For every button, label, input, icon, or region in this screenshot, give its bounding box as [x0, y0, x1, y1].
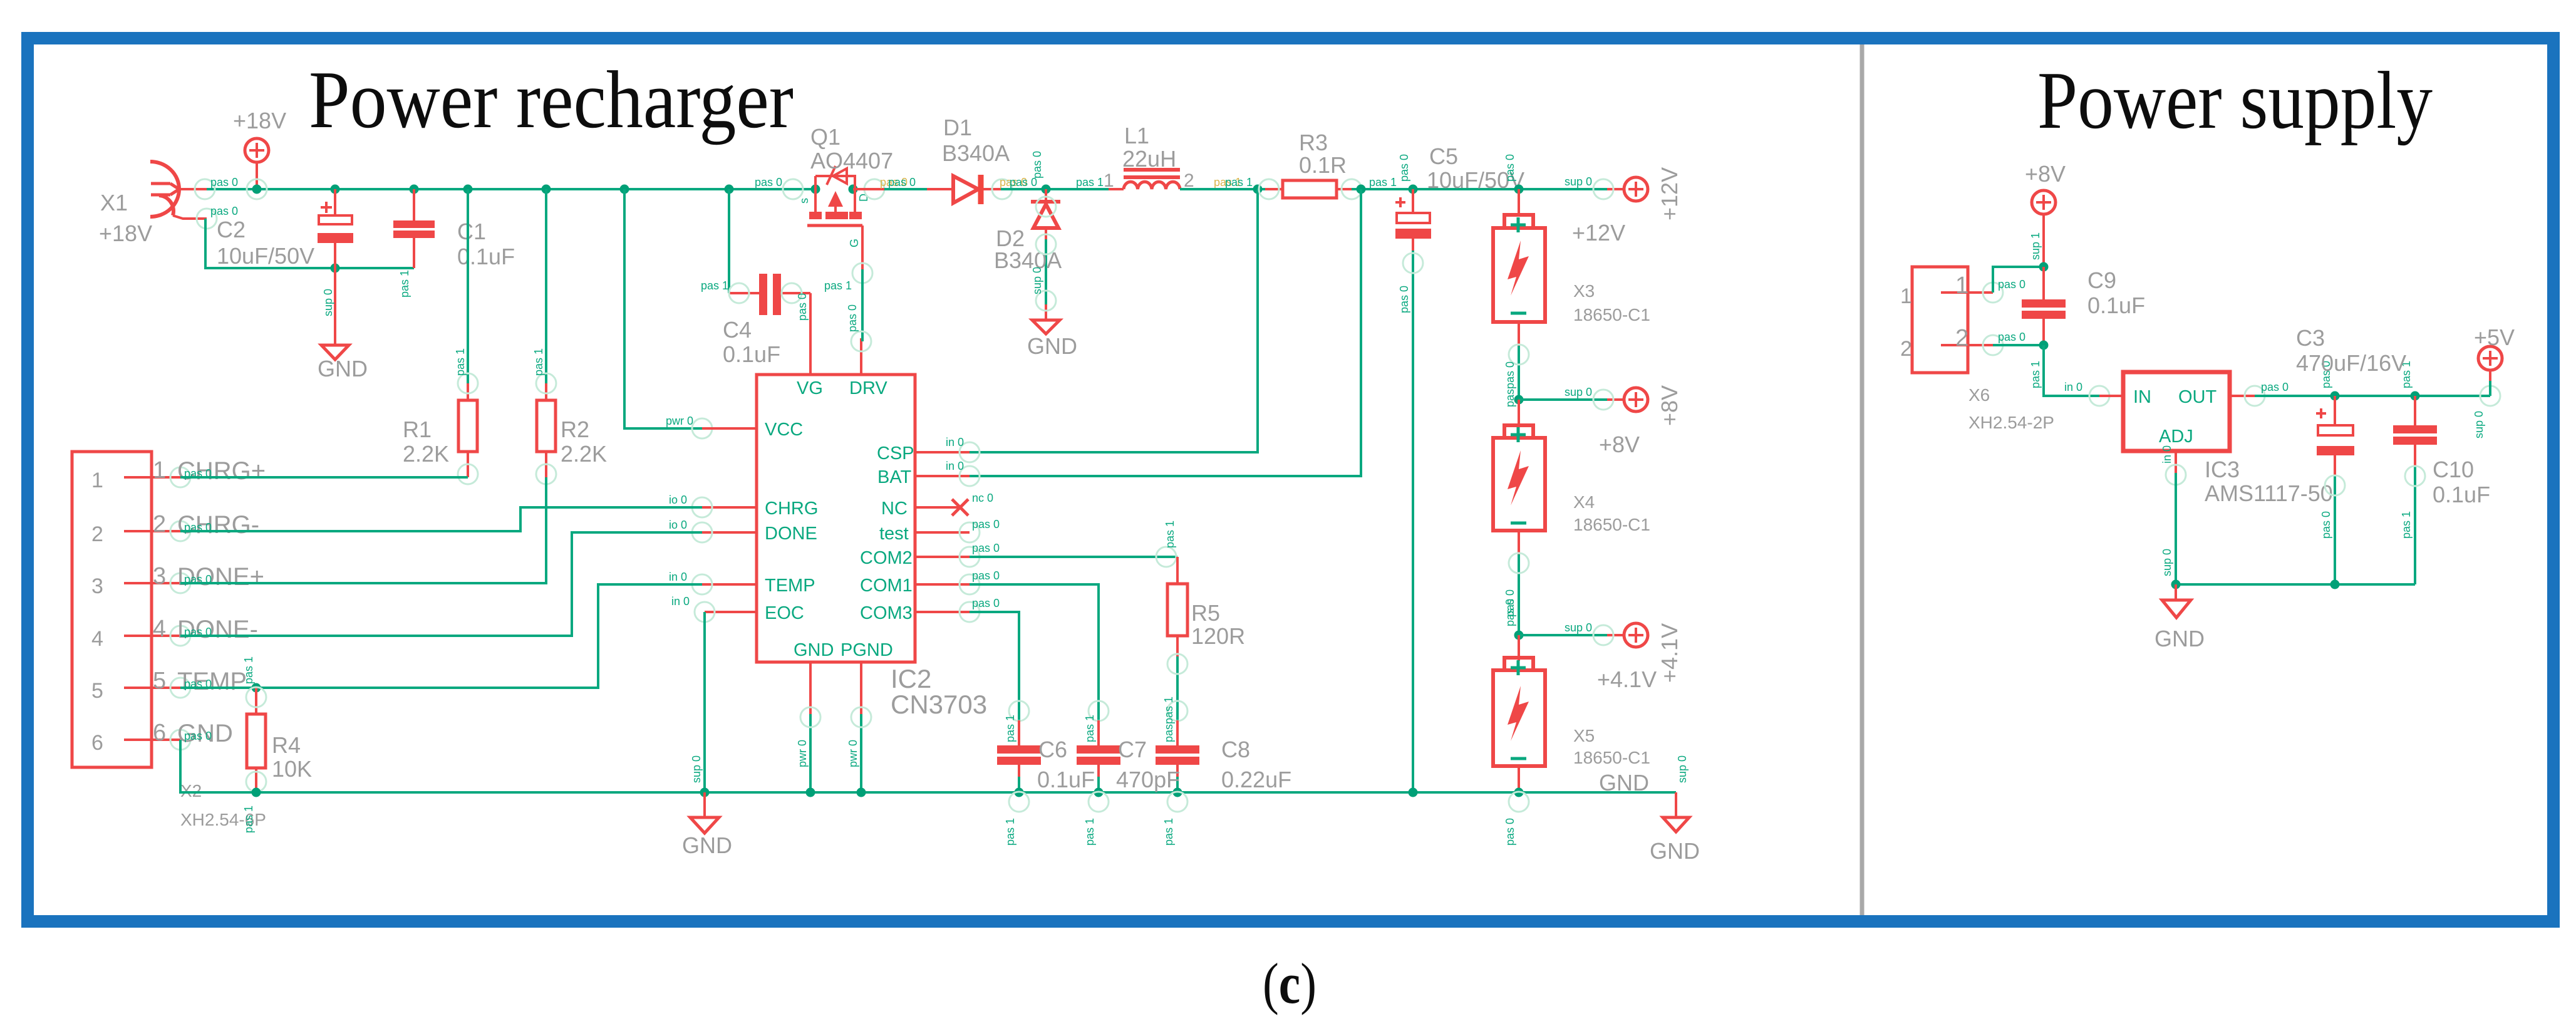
- svg-text:2: 2: [1900, 337, 1912, 361]
- pin ring +4.1V tap: [1593, 625, 1613, 645]
- wire C3 to gnd: [2334, 476, 2336, 584]
- pin 3 X2: [124, 573, 190, 593]
- svg-text:22uH: 22uH: [1122, 146, 1176, 172]
- pin stub TEMP: [702, 583, 757, 586]
- junction C2 bottom: [331, 264, 340, 273]
- pin ring C8 bottom: [1167, 792, 1187, 812]
- svg-text:AMS1117-50: AMS1117-50: [2205, 480, 2333, 506]
- svg-text:R5: R5: [1191, 600, 1220, 626]
- pin stub DRV: [860, 338, 862, 375]
- ground right of batteries: [1663, 792, 1689, 832]
- pin ring VCC: [692, 418, 712, 438]
- svg-text:2.2K: 2.2K: [561, 441, 607, 467]
- svg-text:pas 0: pas 0: [1998, 278, 2025, 291]
- svg-text:+12V: +12V: [1657, 167, 1682, 220]
- pin stub OUT: [2230, 395, 2255, 397]
- svg-text:X4: X4: [1573, 492, 1595, 512]
- svg-text:2.2K: 2.2K: [403, 441, 449, 467]
- junction BAT node: [1357, 185, 1366, 194]
- svg-text:GND: GND: [318, 356, 368, 381]
- pin ring EOC: [695, 602, 715, 622]
- wire OUT net: [2255, 395, 2490, 397]
- pin label overlap pas 0 at Q1 drain: [880, 176, 916, 189]
- svg-text:18650-C1: 18650-C1: [1573, 515, 1650, 534]
- pin ring CHRG: [692, 497, 712, 517]
- svg-text:paspas 1: paspas 1: [1162, 697, 1175, 742]
- svg-text:NC: NC: [881, 499, 908, 519]
- pin stub BAT: [915, 475, 970, 477]
- wire GND pin to rail: [809, 714, 812, 792]
- junction C3 top: [2330, 391, 2340, 401]
- svg-text:pas 1: pas 1: [1076, 176, 1104, 189]
- svg-text:TEMP: TEMP: [765, 576, 815, 596]
- svg-text:Q1: Q1: [810, 124, 841, 150]
- svg-text:pas 1: pas 1: [1004, 715, 1016, 742]
- svg-text:C1: C1: [457, 219, 486, 244]
- pin ring R1 bottom: [458, 464, 478, 484]
- wire +18V rail: [204, 188, 815, 190]
- svg-text:(c): (c): [1263, 951, 1316, 1015]
- pin ring C10 bottom: [2405, 466, 2425, 486]
- wire CHRG- net: [180, 507, 702, 531]
- svg-text:pas 0: pas 0: [846, 304, 859, 332]
- svg-text:PGND: PGND: [841, 640, 893, 660]
- pin stub IN: [2099, 395, 2123, 397]
- wire CSP net: [970, 189, 1258, 452]
- pin ring D2 bottom: [1036, 234, 1056, 254]
- pin 2 X6: [1941, 335, 2003, 355]
- pin 5 X2: [124, 678, 190, 698]
- junction +4.1V tap: [1514, 631, 1524, 640]
- svg-text:CHRG: CHRG: [765, 499, 818, 519]
- pin stub EOC: [705, 611, 757, 613]
- junction R4 top: [252, 683, 261, 693]
- svg-text:470uF/16V: 470uF/16V: [2296, 350, 2406, 376]
- wire X1 sleeve to gnd node: [205, 219, 414, 268]
- svg-text:+5V: +5V: [2474, 324, 2515, 350]
- svg-text:C10: C10: [2433, 457, 2474, 482]
- svg-text:VG: VG: [797, 378, 823, 398]
- junction +18V tap: [252, 185, 262, 194]
- svg-text:C8: C8: [1221, 737, 1250, 762]
- svg-text:pas 1: pas 1: [398, 270, 411, 298]
- svg-text:pas 1: pas 1: [454, 348, 467, 376]
- pin ring R2 bottom: [536, 464, 556, 484]
- svg-text:5: 5: [153, 668, 166, 694]
- capacitor C6 0.1uF: [997, 720, 1041, 780]
- junction C1 top: [410, 185, 419, 194]
- pin ring X3 bottom: [1509, 345, 1529, 365]
- pin ring X4 bottom: [1509, 553, 1529, 573]
- wire DONE+ net: [180, 477, 546, 583]
- svg-text:pas 0: pas 0: [1031, 151, 1043, 179]
- svg-text:R2: R2: [561, 417, 589, 442]
- junction C6 rail: [1015, 788, 1024, 797]
- pin ring test: [960, 522, 980, 542]
- wire PGND pin to rail: [860, 714, 862, 792]
- capacitor C2: [318, 189, 353, 268]
- svg-text:pas 0: pas 0: [972, 597, 1000, 609]
- wire D1 to L1: [1001, 188, 1124, 190]
- battery X5: [1493, 635, 1545, 792]
- svg-text:DONE: DONE: [765, 524, 817, 544]
- pin ring X1 sleeve: [197, 209, 217, 229]
- svg-text:io 0: io 0: [669, 519, 687, 531]
- svg-text:COM1: COM1: [860, 576, 913, 596]
- pin stub CHRG: [702, 506, 757, 509]
- pin label overlap pas 1 L1 right: [1214, 176, 1253, 189]
- svg-text:X5: X5: [1573, 726, 1595, 745]
- wire COM1 net: [970, 584, 1099, 720]
- svg-text:GND: GND: [682, 832, 732, 858]
- pin ring C3 bottom: [2325, 475, 2345, 495]
- pin ring C5 bottom: [1403, 253, 1423, 273]
- pin ring R4 bottom: [246, 772, 266, 792]
- junction R4 bottom: [252, 788, 261, 797]
- svg-text:120R: 120R: [1191, 623, 1245, 649]
- svg-text:10uF/50V: 10uF/50V: [217, 243, 314, 269]
- junction C7 rail: [1094, 788, 1104, 797]
- svg-text:pwr 0: pwr 0: [666, 415, 693, 427]
- pin ring DRV: [851, 331, 871, 351]
- svg-text:nc 0: nc 0: [972, 492, 993, 504]
- pin ring C7 top: [1089, 701, 1109, 721]
- svg-text:Power recharger: Power recharger: [309, 54, 794, 145]
- wire TEMP net: [180, 584, 702, 688]
- wire gnd rail bottom: [180, 740, 1676, 792]
- svg-text:sup 0: sup 0: [1676, 755, 1689, 783]
- wire C8 to rail: [1176, 777, 1179, 792]
- svg-text:pas 0: pas 0: [972, 518, 1000, 531]
- pin 1 X6: [1941, 282, 2003, 303]
- junction C9 bottom: [2039, 341, 2049, 350]
- junction C5 rail: [1409, 788, 1418, 797]
- wire Q1 drain to D1: [853, 188, 953, 190]
- wire COM3 net: [970, 612, 1019, 720]
- pin stub GND of IC2: [809, 662, 812, 714]
- IC U2 CN3703 body: [757, 375, 915, 662]
- pin ring D2 top: [1036, 197, 1056, 217]
- transistor Q1 AO4407: [807, 166, 862, 269]
- ground under D2: [1032, 304, 1060, 334]
- pin ring R5 top: [1156, 547, 1176, 567]
- wire X6 pin2 to C9 bottom: [1993, 344, 2044, 346]
- svg-text:18650-C1: 18650-C1: [1573, 748, 1650, 767]
- svg-text:+8V: +8V: [1599, 432, 1640, 457]
- svg-text:pas 0: pas 0: [1504, 818, 1516, 846]
- diode D2 B340A: [1031, 189, 1060, 239]
- wire EOC to gnd: [703, 612, 706, 792]
- svg-text:sup 0: sup 0: [1031, 267, 1043, 294]
- pin stub NC with no-connect cross: [915, 499, 968, 516]
- svg-text:pas 0: pas 0: [888, 176, 916, 189]
- svg-text:+4.1V: +4.1V: [1597, 666, 1657, 692]
- svg-text:GND: GND: [2154, 626, 2205, 651]
- capacitor C9: [2022, 267, 2066, 345]
- wire CHRG+ net: [180, 476, 468, 479]
- svg-text:0.1R: 0.1R: [1299, 152, 1347, 178]
- pin ring R3 left: [1259, 179, 1279, 199]
- pin label overlap pas 1 rotated C8 top: [1162, 697, 1175, 742]
- svg-text:pas 1: pas 1: [701, 279, 728, 292]
- pin ring R4 top: [246, 687, 266, 707]
- supply +5V: [2478, 346, 2502, 406]
- wire DONE- net: [180, 532, 702, 636]
- connector X1 barrel jack: [150, 162, 207, 219]
- junction R2 top: [542, 185, 551, 194]
- svg-text:1: 1: [1104, 170, 1114, 191]
- svg-text:pas 0: pas 0: [184, 730, 212, 742]
- supply +8V circle right: [1607, 388, 1648, 412]
- resistor R2: [537, 189, 556, 477]
- svg-text:+8V: +8V: [1657, 385, 1682, 426]
- junction C8 rail: [1173, 788, 1182, 797]
- svg-text:C9: C9: [2087, 267, 2116, 293]
- svg-text:EOC: EOC: [765, 603, 804, 623]
- wire R3 to +12V: [1352, 188, 1607, 190]
- svg-text:sup 0: sup 0: [1565, 621, 1592, 634]
- svg-text:X3: X3: [1573, 281, 1595, 301]
- svg-text:C5: C5: [1429, 143, 1458, 169]
- svg-text:pas 0: pas 0: [1504, 599, 1516, 626]
- capacitor C8 0.22uF: [1156, 720, 1199, 780]
- svg-text:470pF: 470pF: [1116, 767, 1180, 792]
- junction battery bottom rail: [1514, 788, 1524, 797]
- wire R5 to C8: [1176, 656, 1179, 745]
- svg-text:0.1uF: 0.1uF: [1037, 767, 1095, 792]
- svg-text:io 0: io 0: [669, 494, 687, 506]
- svg-text:L1: L1: [1124, 123, 1149, 148]
- svg-text:1: 1: [1900, 284, 1912, 308]
- capacitor C5: [1395, 189, 1431, 252]
- pin ring CSP: [960, 442, 980, 462]
- svg-text:pas 0: pas 0: [796, 293, 809, 321]
- pin stub VCC: [702, 427, 757, 430]
- svg-text:+4.1V: +4.1V: [1657, 623, 1682, 683]
- svg-text:X6: X6: [1968, 385, 1990, 405]
- wire C6 to rail: [1018, 777, 1020, 792]
- svg-text:R4: R4: [272, 732, 301, 758]
- svg-text:+18V: +18V: [99, 220, 152, 246]
- wire +8V tap: [1519, 398, 1607, 401]
- pin ring Q1 source: [783, 179, 803, 199]
- svg-text:pas 0: pas 0: [2261, 381, 2289, 393]
- junction C3 gnd: [2330, 580, 2340, 589]
- pin stub ADJ: [2175, 451, 2177, 475]
- pin stub Q1 drain: [853, 188, 884, 190]
- pin ring DONE: [692, 522, 712, 542]
- pin stub DONE: [702, 531, 757, 534]
- svg-text:IC3: IC3: [2205, 457, 2240, 482]
- pin ring TEMP: [692, 574, 712, 594]
- svg-text:sup 0: sup 0: [1565, 175, 1592, 188]
- svg-text:C4: C4: [723, 317, 752, 343]
- svg-text:Power supply: Power supply: [2037, 55, 2433, 146]
- pin ring D2 gnd: [1036, 291, 1056, 311]
- supply +12V circle: [1607, 177, 1648, 201]
- pin ring C8 top: [1167, 701, 1187, 721]
- svg-text:GND: GND: [794, 640, 834, 660]
- svg-text:B340A: B340A: [994, 247, 1062, 273]
- junction ADJ gnd: [2171, 580, 2181, 589]
- svg-text:XH2.54-2P: XH2.54-2P: [1968, 413, 2054, 432]
- svg-text:+12V: +12V: [1572, 220, 1625, 246]
- wire C4 left from rail: [728, 189, 730, 293]
- svg-text:pas 1: pas 1: [1369, 176, 1397, 189]
- svg-text:VCC: VCC: [765, 420, 803, 440]
- svg-text:IN: IN: [2133, 387, 2151, 407]
- junction C4 tap: [725, 185, 734, 194]
- pin ring COM1: [960, 574, 980, 594]
- pin stub test: [915, 531, 970, 534]
- svg-text:pas 0: pas 0: [210, 176, 238, 189]
- svg-text:pas 1: pas 1: [242, 806, 255, 833]
- svg-text:BAT: BAT: [877, 467, 912, 487]
- wire C9 to IN: [2044, 345, 2099, 396]
- wire C7 to rail: [1097, 777, 1100, 792]
- svg-text:COM3: COM3: [860, 603, 913, 623]
- junction GND pin rail: [806, 788, 815, 797]
- svg-text:2: 2: [1955, 325, 1968, 351]
- svg-text:pas 1: pas 1: [1084, 715, 1096, 742]
- pin ring IN: [2089, 386, 2109, 406]
- svg-text:in 0: in 0: [671, 595, 690, 608]
- ground under C2: [321, 268, 349, 360]
- svg-text:0.22uF: 0.22uF: [1221, 767, 1291, 792]
- pin ring GND pin: [800, 707, 820, 727]
- pin ring C6 top: [1009, 701, 1029, 721]
- svg-text:GND: GND: [1027, 333, 1077, 359]
- svg-text:sup 1: sup 1: [2029, 232, 2042, 260]
- svg-text:1: 1: [153, 457, 166, 484]
- svg-text:pas 1: pas 1: [242, 656, 255, 684]
- ground below IC2 left: [690, 792, 719, 833]
- svg-text:DRV: DRV: [849, 378, 887, 398]
- svg-text:IC2: IC2: [891, 664, 931, 693]
- resistor R4 10K: [247, 688, 266, 792]
- pin ring X1 pin: [195, 179, 215, 199]
- svg-text:R3: R3: [1299, 130, 1328, 155]
- resistor R5 120R: [1167, 557, 1187, 658]
- svg-text:C7: C7: [1118, 737, 1147, 762]
- wire X3 to X4: [1518, 346, 1520, 425]
- diode D1 B340A: [953, 175, 1011, 204]
- svg-text:pas 0: pas 0: [755, 176, 782, 189]
- svg-text:in 0: in 0: [946, 460, 964, 472]
- svg-text:pas 1: pas 1: [532, 348, 545, 376]
- svg-text:pas 0: pas 0: [1398, 286, 1410, 313]
- svg-text:CN3703: CN3703: [891, 690, 987, 719]
- svg-text:+8V: +8V: [2025, 161, 2066, 187]
- svg-text:pas 1: pas 1: [2400, 511, 2413, 539]
- junction VCC tap: [620, 185, 629, 194]
- pin ring +8V tap: [1593, 390, 1613, 410]
- pin ring C7 bottom: [1089, 792, 1109, 812]
- wire VG from C4: [809, 293, 812, 375]
- svg-text:3: 3: [153, 563, 166, 589]
- svg-text:3: 3: [91, 574, 103, 598]
- svg-text:2: 2: [153, 511, 166, 537]
- ground right panel: [2162, 584, 2191, 618]
- svg-text:B340A: B340A: [942, 140, 1010, 166]
- pin 2 X2: [124, 521, 190, 541]
- pin ring PGND pin: [851, 707, 871, 727]
- svg-text:in 0: in 0: [2161, 445, 2173, 464]
- svg-text:6: 6: [153, 720, 166, 746]
- connector X2 body: [72, 452, 152, 767]
- wire BAT net: [970, 189, 1361, 476]
- capacitor C10: [2393, 396, 2437, 469]
- svg-text:pas 1: pas 1: [1164, 521, 1176, 548]
- svg-text:in 0: in 0: [946, 436, 964, 448]
- svg-text:pas 0: pas 0: [972, 569, 1000, 582]
- pin ring COM3: [960, 602, 980, 622]
- svg-text:AO4407: AO4407: [810, 148, 893, 174]
- svg-text:C2: C2: [217, 217, 246, 242]
- junction PGND pin rail: [857, 788, 866, 797]
- pin ring OUT: [2245, 386, 2265, 406]
- pin stub COM3: [915, 611, 970, 613]
- svg-text:GND: GND: [1599, 770, 1649, 796]
- pin ring ADJ: [2166, 465, 2186, 485]
- pin ring +12V: [1593, 179, 1613, 199]
- pin label overlap pas 0 at D1 cathode: [1000, 176, 1037, 189]
- svg-text:pas 1: pas 1: [1004, 818, 1016, 846]
- resistor R1: [458, 189, 477, 477]
- pin ring X5 bottom: [1509, 792, 1529, 812]
- pin ring BAT: [960, 466, 980, 486]
- wire L1 to R3: [1180, 188, 1283, 190]
- junction C5 top: [1409, 185, 1418, 194]
- wire COM2 net: [970, 556, 1177, 558]
- svg-text:sup 0: sup 0: [322, 289, 334, 316]
- svg-text:0.1uF: 0.1uF: [457, 244, 515, 269]
- svg-text:0.1uF: 0.1uF: [2433, 482, 2490, 507]
- svg-text:0.1uF: 0.1uF: [723, 341, 780, 367]
- svg-text:test: test: [879, 524, 909, 544]
- svg-text:COM2: COM2: [860, 548, 913, 568]
- svg-text:sup 0: sup 0: [2473, 411, 2485, 438]
- panel divider: [1860, 44, 1865, 915]
- capacitor C4: [729, 274, 810, 315]
- pin ring C4 left: [729, 283, 749, 303]
- pin 4 X2: [124, 626, 190, 646]
- svg-text:D1: D1: [943, 115, 972, 140]
- capacitor C7 470pF: [1077, 720, 1120, 780]
- svg-text:pas 0: pas 0: [972, 542, 1000, 554]
- svg-text:4: 4: [91, 627, 103, 651]
- junction D2 node: [1042, 185, 1051, 194]
- supply +8V right panel: [2032, 190, 2056, 267]
- pin stub COM1: [915, 583, 970, 586]
- pin ring R5 bottom: [1167, 654, 1187, 674]
- junction battery top: [1514, 185, 1524, 194]
- connector X6 body: [1912, 267, 1968, 373]
- svg-text:C6: C6: [1038, 737, 1067, 762]
- wire C5 to gnd rail: [1412, 251, 1414, 792]
- wire +4.1V tap: [1519, 634, 1607, 636]
- svg-text:pas 0: pas 0: [2320, 511, 2332, 539]
- pin ring R3 right: [1342, 179, 1362, 199]
- supply +4.1V circle right: [1607, 623, 1648, 647]
- svg-text:C3: C3: [2296, 325, 2325, 351]
- svg-text:6: 6: [91, 731, 103, 755]
- svg-text:X2: X2: [180, 781, 202, 801]
- capacitor C1: [393, 189, 435, 268]
- pin ring C4 right: [782, 283, 802, 303]
- pin stub CSP: [915, 451, 970, 453]
- pin ring Q1 gate: [852, 263, 872, 283]
